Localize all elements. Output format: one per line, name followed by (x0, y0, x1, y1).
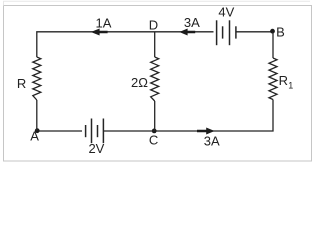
svg-text:2Ω: 2Ω (131, 75, 148, 90)
battery 2V (86, 119, 105, 157)
svg-text:3A: 3A (204, 134, 220, 149)
svg-text:2V: 2V (88, 141, 104, 156)
wire right side (B down to R1) (272, 32, 274, 58)
svg-text:4V: 4V (218, 4, 234, 19)
svg-text:3A: 3A (184, 15, 200, 30)
wire middle branch (D down to 2 ohm) (154, 32, 156, 57)
wire middle branch (2 ohm down to C) (154, 101, 156, 131)
wire right side (R1 down to bottom-right corner, corner to C) (155, 100, 273, 132)
wire battery 4V to node B (236, 31, 273, 33)
resistor R1 (269, 58, 293, 100)
resistor 2 ohm (131, 57, 159, 101)
resistor R (17, 57, 41, 100)
svg-text:R: R (17, 76, 26, 91)
svg-text:1: 1 (288, 81, 293, 91)
svg-text:R: R (279, 73, 288, 88)
svg-text:C: C (149, 133, 158, 148)
current arrow 3A (top) (179, 15, 200, 36)
svg-text:A: A (30, 129, 39, 144)
wire top-left segment (corner to battery 4V) (37, 32, 214, 57)
svg-text:D: D (149, 18, 158, 33)
node C (149, 129, 158, 148)
svg-text:B: B (276, 24, 285, 39)
node A (30, 128, 39, 143)
node B (270, 24, 285, 39)
wire bottom (C to battery 2V) (104, 130, 155, 132)
wire left side (A up to R) (36, 100, 38, 131)
wire battery 2V to node A (37, 130, 82, 132)
current arrow 1A (91, 16, 112, 36)
svg-text:1A: 1A (96, 16, 112, 31)
current arrow 3A (bottom) (197, 128, 220, 149)
battery 4V (217, 4, 236, 45)
